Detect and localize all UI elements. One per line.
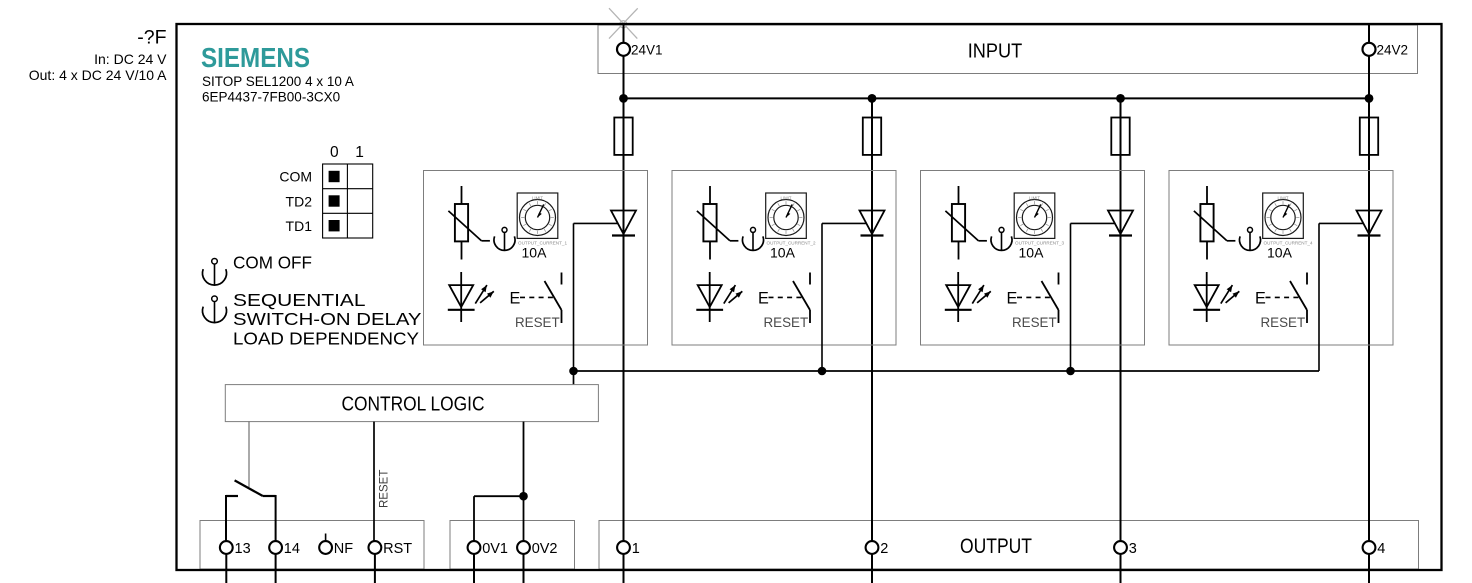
label SEQUENTIAL [233, 290, 366, 310]
svg-text:CONTROL LOGIC: CONTROL LOGIC [342, 393, 485, 415]
label RESET channel 3 [1012, 315, 1057, 330]
svg-text:NF: NF [334, 541, 353, 557]
svg-text:SEQUENTIAL: SEQUENTIAL [233, 290, 366, 310]
svg-text:COM: COM [279, 169, 312, 185]
svg-text:E: E [1255, 290, 1266, 308]
anchor symbol (factory setting) for COM OFF [203, 259, 227, 286]
OUTPUT terminal group box [599, 521, 1419, 570]
fuse F2 [863, 118, 881, 155]
terminal NF [319, 541, 332, 554]
label RESET (vertical) [379, 470, 391, 508]
wire from top edge to terminal 24V1 [623, 23, 625, 43]
svg-text:3: 3 [1129, 541, 1137, 557]
terminal 24V2 [1363, 43, 1376, 56]
wire 0V junction to 0V1 [474, 496, 524, 541]
label COM OFF [233, 253, 312, 273]
interruption-point X mark at 24V1 [609, 8, 638, 38]
DIP switch TD2 position 0 [329, 195, 340, 206]
label E channel 2 [758, 290, 769, 308]
dashed actuation line channel 3 [1017, 296, 1051, 298]
svg-text:10A: 10A [522, 244, 548, 260]
svg-text:RST: RST [383, 541, 412, 557]
fuse F1 [614, 118, 632, 155]
wire below terminal 2 [871, 554, 873, 583]
reset switch channel 1 [545, 273, 562, 324]
DIP column header 0 [330, 144, 339, 161]
svg-text:SIEMENS: SIEMENS [201, 42, 310, 73]
svg-text:10A: 10A [1019, 244, 1045, 260]
node input bus channel 4 [1365, 94, 1374, 103]
product name SITOP SEL1200 4 x 10 A [202, 74, 354, 89]
node input bus channel 3 [1116, 94, 1125, 103]
label E channel 3 [1007, 290, 1018, 308]
wire below terminal 3 [1120, 554, 1122, 583]
value label 10A channel 4 [1267, 244, 1293, 260]
electronic switch diode V1 [611, 211, 636, 236]
channel 4 function block [1169, 171, 1393, 346]
label RESET channel 4 [1261, 315, 1306, 330]
channel 2 function block [672, 171, 896, 346]
wire below terminal 1 [623, 554, 625, 583]
DIP switch TD1 position 0 [329, 220, 340, 231]
svg-text:TD2: TD2 [286, 193, 313, 209]
svg-text:-?F: -?F [137, 27, 166, 49]
device tag label -?F [137, 27, 166, 49]
main wire channel 1 [623, 98, 625, 541]
0V terminal box [450, 521, 575, 570]
svg-text:E: E [1007, 290, 1018, 308]
LED indicator channel 3 [945, 272, 991, 322]
label E channel 1 [510, 290, 521, 308]
wire below terminal 14 [275, 554, 277, 583]
channel 1 function block [424, 171, 648, 346]
wire control logic to 0V node [523, 422, 525, 542]
sense wire channel 4 vertical [1318, 223, 1320, 371]
svg-text:10A: 10A [1267, 244, 1293, 260]
electronic switch diode V2 [860, 211, 885, 236]
terminal label 4 [1377, 541, 1385, 557]
DIP row label COM [279, 169, 312, 185]
fuse F3 [1111, 118, 1129, 155]
signal terminal box 13/14/NF/RST [200, 521, 424, 570]
wire terminal 24V2 to input bus [1368, 56, 1370, 99]
DIP row label TD2 [286, 193, 313, 209]
svg-text:14: 14 [284, 541, 300, 557]
svg-text:LIMIT: LIMIT [781, 196, 792, 201]
anchor symbol (factory setting) channel 1 [494, 227, 515, 250]
INPUT terminal group box [598, 25, 1418, 74]
output rating label [29, 67, 167, 83]
svg-text:6EP4437-7FB00-3CX0: 6EP4437-7FB00-3CX0 [202, 90, 340, 105]
svg-text:COM OFF: COM OFF [233, 253, 312, 273]
svg-text:OUTPUT: OUTPUT [960, 535, 1032, 558]
terminal 14 [269, 541, 282, 554]
sense wire channel 2 vertical [821, 223, 823, 371]
terminal label 24V2 [1377, 42, 1409, 57]
terminal label 1 [632, 541, 640, 557]
svg-text:10A: 10A [770, 244, 796, 260]
svg-text:13: 13 [235, 541, 251, 557]
wire below terminal 4 [1368, 554, 1370, 583]
value label 10A channel 1 [522, 244, 548, 260]
svg-text:1: 1 [355, 144, 364, 161]
label E channel 4 [1255, 290, 1266, 308]
terminal label NF [334, 541, 353, 557]
order number 6EP4437-7FB00-3CX0 [202, 90, 340, 105]
svg-text:TD1: TD1 [286, 218, 313, 234]
terminal 2 [866, 541, 879, 554]
anchor symbol (factory setting) channel 4 [1240, 227, 1261, 250]
adjustable resistor (current limiter) channel 4 [1194, 186, 1236, 260]
value label 10A channel 3 [1019, 244, 1045, 260]
svg-text:SITOP SEL1200 4 x 10 A: SITOP SEL1200 4 x 10 A [202, 74, 354, 89]
svg-text:Out: 4 x DC 24 V/10 A: Out: 4 x DC 24 V/10 A [29, 67, 167, 83]
value label 10A channel 2 [770, 244, 796, 260]
svg-text:LIMIT: LIMIT [1278, 196, 1289, 201]
svg-text:1: 1 [632, 541, 640, 557]
terminal label 14 [284, 541, 300, 557]
sense wire channel 1 vertical [573, 223, 575, 371]
wire below terminal RST [374, 554, 376, 583]
terminal label 2 [880, 541, 888, 557]
svg-text:LIMIT: LIMIT [1029, 196, 1040, 201]
dashed actuation line channel 4 [1266, 296, 1300, 298]
current-limit dial P3 [1014, 193, 1064, 245]
node sense bus channel 3 [1066, 367, 1075, 376]
svg-text:2: 2 [880, 541, 888, 557]
node input bus channel 1 [619, 94, 628, 103]
svg-text:RESET: RESET [764, 315, 809, 330]
wire control logic to RST terminal [373, 422, 375, 542]
terminal 4 [1363, 541, 1376, 554]
feedback relay contact 13-14 [226, 480, 276, 541]
svg-text:LIMIT: LIMIT [532, 196, 543, 201]
label RESET channel 1 [515, 315, 560, 330]
electronic switch diode V4 [1357, 211, 1382, 236]
svg-text:INPUT: INPUT [968, 41, 1023, 63]
sense bus wire [574, 370, 1320, 372]
control wire to feedback contact [248, 422, 250, 487]
node sense bus channel 2 [818, 367, 827, 376]
main wire channel 4 [1368, 98, 1370, 541]
label SWITCH-ON DELAY [233, 309, 422, 329]
terminal RST [369, 541, 382, 554]
current-limit dial P1 [517, 193, 567, 245]
main wire channel 3 [1120, 98, 1122, 541]
terminal label RST [383, 541, 412, 557]
LED indicator channel 4 [1193, 272, 1239, 322]
input bus wire [624, 97, 1370, 99]
adjustable resistor (current limiter) channel 2 [697, 186, 739, 260]
anchor symbol (factory setting) for sequential delay [203, 296, 227, 323]
adjustable resistor (current limiter) channel 3 [945, 186, 987, 260]
INPUT label [968, 41, 1023, 63]
wire from top edge to terminal 24V2 [1368, 23, 1370, 43]
svg-text:24V1: 24V1 [631, 42, 663, 57]
svg-text:In: DC 24 V: In: DC 24 V [94, 51, 167, 67]
svg-text:0V2: 0V2 [532, 541, 558, 557]
terminal label 24V1 [631, 42, 663, 57]
terminal 3 [1114, 541, 1127, 554]
sense wire channel 2 horizontal [822, 222, 866, 224]
svg-text:4: 4 [1377, 541, 1385, 557]
svg-text:RESET: RESET [379, 470, 391, 508]
node input bus channel 2 [868, 94, 877, 103]
CONTROL LOGIC label [342, 393, 485, 415]
fuse F4 [1360, 118, 1378, 155]
terminal label 0V2 [532, 541, 558, 557]
node sense bus channel 1 [569, 367, 578, 376]
svg-text:0V1: 0V1 [482, 541, 508, 557]
main wire channel 2 [871, 98, 873, 541]
sense wire channel 3 vertical [1070, 223, 1072, 371]
svg-text:RESET: RESET [515, 315, 560, 330]
current-limit dial P2 [766, 193, 816, 245]
terminal label 13 [235, 541, 251, 557]
reset switch channel 3 [1042, 273, 1059, 324]
label LOAD DEPENDENCY [233, 328, 419, 348]
svg-text:24V2: 24V2 [1377, 42, 1409, 57]
reset switch channel 2 [793, 273, 810, 324]
sense wire channel 3 horizontal [1071, 222, 1115, 224]
svg-text:RESET: RESET [1261, 315, 1306, 330]
wire below terminal 0V2 [523, 554, 525, 583]
wire below terminal 0V1 [473, 554, 475, 583]
wire terminal 24V1 to input bus [623, 56, 625, 99]
terminal label 0V1 [482, 541, 508, 557]
SIEMENS logo [201, 42, 310, 73]
wire below terminal 13 [225, 554, 227, 583]
electronic switch diode V3 [1108, 211, 1133, 236]
current-limit dial P4 [1263, 193, 1313, 245]
svg-text:0: 0 [330, 144, 339, 161]
dashed actuation line channel 1 [520, 296, 554, 298]
terminal 24V1 [617, 43, 630, 56]
OUTPUT label [960, 535, 1032, 558]
wire sense bus to control logic [573, 371, 575, 385]
anchor symbol (factory setting) channel 2 [743, 227, 764, 250]
terminal 1 [617, 541, 630, 554]
control logic block [225, 385, 598, 422]
DIP row label TD1 [286, 218, 313, 234]
terminal 13 [220, 541, 233, 554]
terminal label 3 [1129, 541, 1137, 557]
channel 3 function block [921, 171, 1145, 346]
stub above terminal NF [325, 534, 327, 542]
terminal 0V2 [517, 541, 530, 554]
svg-text:RESET: RESET [1012, 315, 1057, 330]
adjustable resistor (current limiter) channel 1 [448, 186, 490, 260]
LED indicator channel 2 [696, 272, 742, 322]
svg-text:E: E [510, 290, 521, 308]
DIP switch COM position 0 [329, 171, 340, 182]
reset switch channel 4 [1290, 273, 1307, 324]
sense wire channel 1 horizontal [574, 222, 618, 224]
DIP switch table grid [323, 164, 373, 238]
node 0V junction [519, 492, 528, 501]
svg-text:LOAD DEPENDENCY: LOAD DEPENDENCY [233, 328, 419, 348]
LED indicator channel 1 [448, 272, 494, 322]
dashed actuation line channel 2 [769, 296, 803, 298]
anchor symbol (factory setting) channel 3 [991, 227, 1012, 250]
svg-text:SWITCH-ON DELAY: SWITCH-ON DELAY [233, 309, 422, 329]
input rating label [94, 51, 167, 67]
label RESET channel 2 [764, 315, 809, 330]
sense wire channel 4 horizontal [1319, 222, 1363, 224]
DIP column header 1 [355, 144, 364, 161]
terminal 0V1 [468, 541, 481, 554]
svg-text:E: E [758, 290, 769, 308]
